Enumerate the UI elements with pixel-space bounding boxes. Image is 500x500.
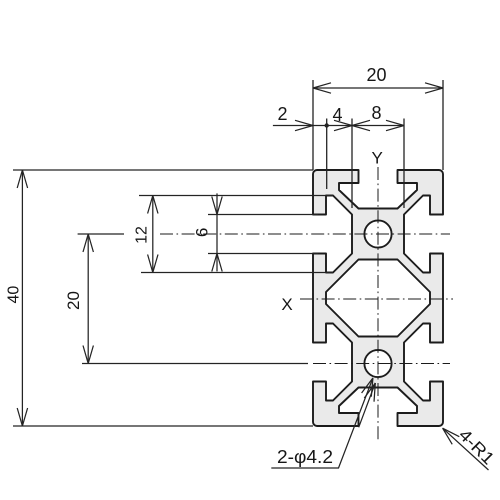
svg-text:X: X: [281, 295, 292, 314]
X axis centerline (horizontal dash-dot): [300, 298, 453, 300]
arrowhead dim 12 bottom: [148, 255, 158, 273]
arrowhead leader 4-R1: [439, 424, 459, 444]
arrowhead dim 4 right: [334, 120, 352, 130]
dimension line 20 (hole pitch): [87, 234, 89, 364]
svg-text:2: 2: [277, 104, 287, 124]
centerline through top hole: [160, 233, 450, 235]
svg-text:6: 6: [193, 228, 212, 237]
dimension line 40 (overall height): [21, 170, 23, 426]
arrowhead dim 6 top: [212, 197, 222, 215]
Y axis centerline (vertical dash-dot): [377, 167, 379, 441]
extension line, dim 20 left bottom (y=363.5): [82, 363, 308, 365]
svg-text:40: 40: [6, 286, 23, 304]
svg-text:4: 4: [332, 105, 342, 125]
leader line for 4-R1 corner radius callout: [443, 428, 489, 470]
dimension line 12 (slot cavity width): [152, 196, 154, 273]
junction dot between dim 2 and dim 4: [325, 123, 329, 127]
arrowhead dim 20 top right: [425, 83, 443, 93]
extension line, dim 20 left top (y=234): [78, 233, 124, 235]
extension line, dim 6 top (y=214.5): [208, 214, 318, 216]
arrowhead leader phi4.2 branch: [364, 381, 380, 401]
centerline through bottom hole: [313, 363, 450, 365]
arrowhead leader phi4.2: [362, 376, 378, 397]
arrowhead dim 12 top: [148, 196, 158, 214]
arrowhead dim 20 left top: [83, 234, 93, 252]
arrowhead dim 20 top left: [313, 83, 331, 93]
extension line, dim 8 right (x=404): [403, 119, 405, 209]
arrowhead dim 40 top: [17, 170, 27, 188]
arrowhead dim 8 left: [352, 120, 370, 130]
extension line, dim 2/4 junction (x=326.7): [326, 119, 328, 190]
svg-text:20: 20: [366, 65, 386, 85]
extension line, dim 4/8 (x=352): [351, 119, 353, 209]
leader line for 2-phi4.2 callout: [271, 378, 373, 468]
extension line, dim 20 top, right (x=443): [442, 80, 444, 170]
extension line, dim 40 top (y=170): [13, 169, 313, 171]
extension line, dim 40 bottom (y=426): [13, 425, 313, 427]
svg-text:20: 20: [64, 291, 83, 310]
dimension line row 2-4-8: [273, 125, 404, 127]
dimension line 6 (slot opening width): [216, 193, 218, 271]
svg-text:Y: Y: [372, 149, 383, 168]
svg-text:2-φ4.2: 2-φ4.2: [277, 447, 333, 467]
svg-text:12: 12: [133, 226, 150, 244]
arrowhead dim 2: [295, 120, 313, 130]
extrusion profile cross-section 20x40 with T-slots, cores, ribs (material fill): [313, 170, 443, 426]
arrowhead dim 40 bottom: [17, 408, 27, 426]
leader line second branch to hole: [359, 383, 376, 427]
extension line, dim 20 top, left (x=313): [312, 80, 314, 170]
arrowhead dim 6 bottom: [212, 254, 222, 272]
svg-text:8: 8: [371, 103, 381, 123]
arrowhead dim 20 left bottom: [83, 346, 93, 364]
extension line, dim 6 bottom (y=253.5): [208, 253, 318, 255]
dimension line 20 (top width): [313, 87, 443, 89]
extension line, dim 12 bottom (y=272.5): [141, 272, 333, 274]
arrowhead dim 8 right: [386, 120, 404, 130]
svg-text:4-R1: 4-R1: [455, 425, 498, 468]
extension line, dim 12 top (y=195.5): [139, 195, 333, 197]
